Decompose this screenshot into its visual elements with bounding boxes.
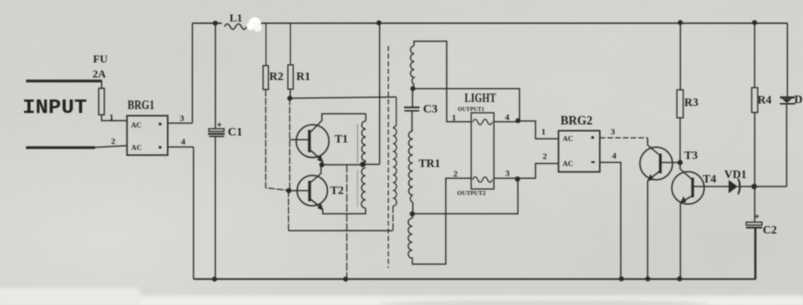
- svg-text:OUTPUT2: OUTPUT2: [457, 191, 486, 197]
- svg-text:R3: R3: [684, 97, 698, 109]
- svg-text:BRG1: BRG1: [128, 98, 155, 112]
- svg-text:D: D: [794, 94, 802, 106]
- svg-text:R2: R2: [269, 71, 283, 83]
- svg-text:T1: T1: [335, 134, 349, 146]
- svg-text:T2: T2: [330, 185, 344, 197]
- svg-text:INPUT: INPUT: [23, 97, 88, 120]
- svg-text:2: 2: [453, 168, 458, 178]
- svg-text:3: 3: [611, 127, 616, 137]
- svg-text:LIGHT: LIGHT: [465, 91, 497, 105]
- svg-text:2: 2: [111, 136, 116, 146]
- svg-text:T3: T3: [684, 150, 698, 162]
- svg-text:BRG2: BRG2: [561, 113, 593, 127]
- svg-text:C1: C1: [228, 124, 243, 138]
- svg-text:4: 4: [505, 112, 510, 122]
- svg-text:1: 1: [541, 127, 545, 137]
- svg-text:R1: R1: [296, 71, 310, 83]
- svg-text:FU: FU: [93, 54, 108, 66]
- svg-text:2: 2: [543, 151, 548, 161]
- svg-text:1: 1: [452, 112, 456, 122]
- svg-text:4: 4: [612, 150, 617, 160]
- svg-text:4: 4: [181, 137, 186, 147]
- svg-text:AC: AC: [563, 134, 574, 143]
- svg-text:T4: T4: [703, 173, 717, 185]
- svg-text:3: 3: [180, 113, 185, 123]
- svg-text:AC: AC: [131, 143, 142, 152]
- svg-text:C3: C3: [423, 102, 438, 116]
- svg-text:AC: AC: [563, 159, 574, 168]
- svg-text:C2: C2: [763, 224, 777, 236]
- svg-text:R4: R4: [758, 94, 772, 106]
- svg-text:TR1: TR1: [419, 158, 441, 170]
- svg-text:L1: L1: [230, 12, 243, 24]
- svg-text:AC: AC: [131, 120, 142, 129]
- svg-text:2A: 2A: [93, 68, 107, 80]
- svg-text:1: 1: [109, 112, 113, 122]
- svg-text:3: 3: [505, 168, 510, 178]
- svg-text:OUTPUT1: OUTPUT1: [458, 107, 485, 113]
- svg-text:VD1: VD1: [724, 169, 747, 181]
